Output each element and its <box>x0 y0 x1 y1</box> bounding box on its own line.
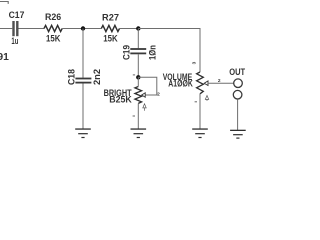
svg-text:A1ØØK: A1ØØK <box>168 78 193 88</box>
wire BRIGHT to ground <box>137 103 139 129</box>
wire jack sleeve to ground <box>237 99 239 130</box>
ground (jack) <box>230 130 246 139</box>
ground (BRIGHT branch) <box>131 128 147 138</box>
capacitor C17 <box>9 10 25 46</box>
potentiometer VOLUME A100K <box>163 72 208 94</box>
wire input to C17 <box>0 28 12 30</box>
wire VOLUME to ground <box>199 94 201 129</box>
svg-text:3: 3 <box>192 61 198 64</box>
junction node R26/R27/C18 <box>81 26 85 30</box>
wire node to VOLUME corner <box>138 29 200 73</box>
junction node R27/C19/VOLUME <box>136 26 140 30</box>
capacitor C19 <box>121 45 157 60</box>
potentiometer BRIGHT B25K <box>104 87 146 105</box>
wire C18 to ground <box>82 84 84 130</box>
pin label 1 (BRIGHT top) <box>133 74 135 75</box>
wire VOLUME wiper to jack <box>208 82 234 84</box>
svg-text:15K: 15K <box>103 33 118 43</box>
wire BRIGHT node to wiper corner <box>138 77 157 95</box>
svg-text:C19: C19 <box>121 45 131 60</box>
svg-text:2n2: 2n2 <box>92 69 102 85</box>
ground (C18 branch) <box>75 128 91 138</box>
svg-text:2: 2 <box>157 92 160 98</box>
wire BRIGHT node to pot <box>137 77 139 86</box>
svg-text:R26: R26 <box>45 12 61 22</box>
svg-text:1Øn: 1Øn <box>147 45 157 60</box>
svg-text:OUT: OUT <box>229 67 245 77</box>
pin label 1 (VOLUME bottom) <box>195 101 197 102</box>
svg-text:2: 2 <box>218 78 221 84</box>
ground (VOLUME branch) <box>192 128 208 138</box>
wire node down to C18 <box>82 29 84 78</box>
wire node down to C19 <box>137 29 139 49</box>
svg-text:R27: R27 <box>102 12 119 22</box>
wire R27 to node <box>120 28 139 30</box>
svg-text:C17: C17 <box>9 10 25 20</box>
wire R26 to node <box>62 28 101 30</box>
wire top-left stub <box>0 2 8 4</box>
svg-text:1u: 1u <box>11 36 18 46</box>
svg-text:C18: C18 <box>67 69 77 85</box>
jack OUT sleeve circle <box>233 90 242 99</box>
capacitor C18 <box>67 69 102 85</box>
wire C19 to BRIGHT node <box>137 54 139 77</box>
jack OUT tip circle <box>234 79 243 88</box>
svg-text:15K: 15K <box>46 33 61 43</box>
resistor R26 <box>44 12 62 43</box>
junction node BRIGHT wiper tie <box>136 75 140 79</box>
pin label 3 (BRIGHT bottom) <box>133 116 135 117</box>
svg-text:91: 91 <box>0 52 9 63</box>
wire C17 to R26 <box>19 28 45 30</box>
resistor R27 <box>101 12 119 43</box>
pin label 4 (VOLUME) <box>205 96 208 101</box>
svg-text:B25K: B25K <box>109 94 132 104</box>
pin label 4 (BRIGHT) <box>143 104 146 111</box>
